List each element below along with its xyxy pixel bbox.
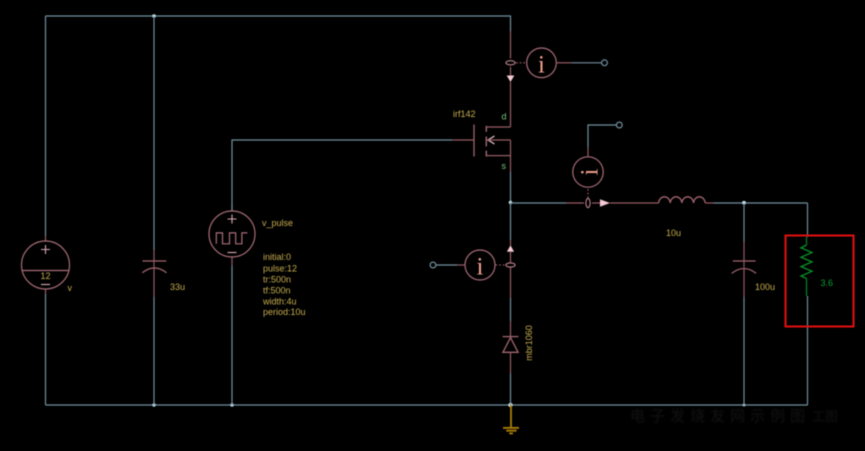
label width:4u xyxy=(262,297,297,307)
svg-text:12: 12 xyxy=(41,271,51,281)
svg-text:width:4u: width:4u xyxy=(262,297,297,307)
label 12 (V1 value) xyxy=(41,271,51,281)
mosfet Q1 irf142 xyxy=(452,97,511,172)
label period:10u xyxy=(263,307,306,317)
wire C2 branch bottom xyxy=(743,297,745,405)
svg-text:irf142: irf142 xyxy=(453,109,476,119)
svg-text:100u: 100u xyxy=(755,282,775,292)
node source junction xyxy=(509,201,513,205)
wire V1 bottom to ground rail xyxy=(45,294,47,405)
node output junction xyxy=(742,201,746,205)
node junction bottom rail V2 xyxy=(230,403,233,406)
label 10u xyxy=(666,228,681,238)
node open terminal I2 xyxy=(616,122,622,128)
node junction bottom rail C1 xyxy=(152,403,155,406)
label pulse:12 xyxy=(263,264,297,274)
wire out node down to probe I3 xyxy=(510,203,512,240)
capacitor C2 100u xyxy=(732,242,756,297)
svg-text:i: i xyxy=(577,168,604,175)
wire bottom rail xyxy=(46,404,808,406)
label tr:500n xyxy=(263,275,291,285)
wire right vertical to load xyxy=(807,203,809,237)
svg-text:initial:0: initial:0 xyxy=(263,252,291,262)
wire V2 bottom xyxy=(231,266,233,405)
wire source to out node xyxy=(510,172,512,203)
node junction top rail / C1 branch xyxy=(152,14,156,18)
svg-text:d: d xyxy=(502,112,507,122)
label v_pulse xyxy=(262,218,293,228)
svg-text:v_pulse: v_pulse xyxy=(262,218,293,228)
resistor R1 load xyxy=(801,237,812,296)
wire drain top xyxy=(510,16,512,31)
wire C1 branch top xyxy=(153,16,155,250)
svg-text:tf:500n: tf:500n xyxy=(263,286,291,296)
wire probe I3 to diode xyxy=(510,298,512,321)
wire load bottom to rail xyxy=(807,296,809,405)
svg-text:v: v xyxy=(68,283,73,293)
svg-text:i: i xyxy=(477,254,484,281)
label initial:0 xyxy=(263,252,291,262)
svg-text:工图: 工图 xyxy=(812,409,838,424)
svg-text:mbr1060: mbr1060 xyxy=(524,325,534,361)
watermark xyxy=(630,408,838,425)
wire inductor to output node xyxy=(714,202,808,204)
wire C2 branch top xyxy=(743,203,745,242)
label pin d xyxy=(502,112,507,122)
svg-text:3.6: 3.6 xyxy=(821,278,834,288)
svg-text:i: i xyxy=(538,51,545,78)
node open terminal I3 xyxy=(430,262,436,268)
svg-text:s: s xyxy=(502,161,507,171)
svg-text:电子发烧友网示例图: 电子发烧友网示例图 xyxy=(630,408,810,425)
diode D1 mbr1060 xyxy=(503,321,519,374)
wire C1 branch bottom xyxy=(153,297,155,405)
svg-text:tr:500n: tr:500n xyxy=(263,275,291,285)
svg-text:pulse:12: pulse:12 xyxy=(263,264,297,274)
node junction bottom rail diode xyxy=(508,403,512,407)
svg-text:period:10u: period:10u xyxy=(263,307,306,317)
label 33u xyxy=(170,282,185,292)
node junction bottom rail C2 xyxy=(743,404,746,407)
wire probe I2 to terminal xyxy=(588,125,616,147)
current probe I3 (diode current) xyxy=(457,240,515,298)
label irf142 xyxy=(453,109,476,119)
wire left vertical to V1 xyxy=(45,16,47,236)
label pin s xyxy=(502,161,507,171)
svg-text:33u: 33u xyxy=(170,282,185,292)
node open terminal I1 xyxy=(602,60,608,66)
annotation red box around load xyxy=(786,236,854,327)
label tf:500n xyxy=(263,286,291,296)
ground xyxy=(503,405,519,433)
voltage source V1 xyxy=(22,236,70,294)
inductor L1 10u xyxy=(640,197,714,203)
svg-text:10u: 10u xyxy=(666,228,681,238)
label v (V1 name) xyxy=(68,283,73,293)
wire probe I3 to terminal xyxy=(436,264,457,266)
capacitor C1 33u xyxy=(142,250,166,297)
label 100u xyxy=(755,282,775,292)
wire diode to bottom rail xyxy=(510,374,512,406)
wire V2 top to gate xyxy=(232,140,452,211)
pulse source V2 v_pulse xyxy=(209,205,255,266)
current probe I2 (inductor current) xyxy=(566,147,640,208)
wire out node to probe I2 xyxy=(511,202,567,204)
label mbr1060 xyxy=(524,325,534,361)
wire top rail xyxy=(46,15,512,17)
wire probe I1 to terminal xyxy=(572,62,601,64)
label 3.6 xyxy=(821,278,834,288)
current probe I1 (drain current) xyxy=(506,31,572,97)
